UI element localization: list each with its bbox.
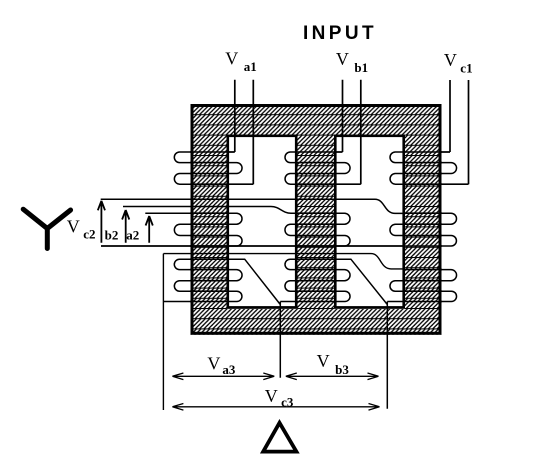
winding b1 right-side loop	[334, 163, 350, 174]
wire c2 to right limb	[101, 199, 405, 213]
winding a1 on left limb: crossing wires	[190, 152, 227, 184]
svg-text:c2: c2	[83, 226, 95, 241]
svg-text:V: V	[67, 216, 80, 236]
svg-text:V: V	[444, 50, 457, 70]
terminal wires Vc1	[442, 80, 469, 184]
svg-text:c1: c1	[460, 61, 472, 76]
terminal wires Vb1	[334, 80, 361, 184]
winding b1 left-side loops	[285, 152, 298, 184]
winding c2 on right limb: crossing wires	[405, 213, 443, 246]
svg-text:b3: b3	[335, 362, 349, 377]
wire Y neutral	[101, 245, 405, 247]
winding c1 left-side loops	[390, 152, 405, 184]
arrow a2	[146, 216, 153, 243]
winding c3 left-side loop	[390, 281, 405, 292]
svg-text:V: V	[207, 354, 220, 374]
arrow c2	[98, 201, 105, 243]
window 1 outline	[228, 136, 296, 308]
dimension arrow Vb3	[286, 373, 379, 380]
svg-text:V: V	[265, 386, 278, 406]
winding b3 right-side loops	[334, 270, 350, 302]
arrow b2	[122, 210, 129, 243]
winding a3 on left limb: crossing wires	[190, 259, 227, 301]
winding c2 left-side loop	[390, 224, 405, 235]
winding c1 on right limb: crossing wires	[405, 152, 443, 184]
winding a2 left-side loop	[174, 224, 190, 235]
dimension arrow Vc3	[172, 404, 379, 411]
wire b2 to middle limb	[123, 207, 298, 214]
winding c3 right-side loops	[442, 270, 457, 302]
winding a1 left-side loops	[174, 152, 190, 184]
svg-text:a2: a2	[126, 228, 139, 243]
winding a3 left-side loops	[174, 259, 190, 291]
winding a2 on left limb: crossing wires	[190, 213, 227, 246]
svg-text:a1: a1	[244, 59, 257, 74]
svg-text:INPUT: INPUT	[303, 23, 377, 44]
wire a2 to left limb	[145, 212, 190, 214]
svg-text:V: V	[336, 49, 349, 69]
svg-text:a3: a3	[222, 362, 236, 377]
winding b2 left-side loop	[285, 224, 298, 235]
winding c3 on right limb: crossing wires	[405, 270, 443, 302]
winding b2 right-side loops	[334, 213, 350, 246]
delta wire a3-c3 (left loop-around)	[163, 254, 405, 410]
winding c1 right-side loop	[442, 163, 457, 174]
winding a3 right-side loops	[227, 270, 243, 302]
window 2 outline	[335, 136, 403, 308]
winding b1 on middle limb: crossing wires	[297, 152, 335, 184]
svg-text:V: V	[225, 49, 238, 69]
svg-text:b2: b2	[105, 228, 119, 243]
svg-text:c3: c3	[281, 395, 294, 410]
winding a2 right-side loops	[227, 213, 243, 246]
winding b3 on middle limb: crossing wires	[297, 259, 335, 301]
dimension arrow Va3	[172, 373, 274, 380]
delta link a3 diagonal in window 1	[227, 259, 298, 378]
winding a1 right-side loop	[227, 163, 243, 174]
winding b2 on middle limb: crossing wires	[297, 213, 335, 246]
delta link b3 diagonal in window 2	[334, 259, 405, 409]
terminal wires Va1	[227, 80, 254, 184]
wye symbol	[23, 209, 70, 248]
core outer outline	[192, 106, 440, 334]
delta symbol	[263, 423, 296, 452]
winding c2 right-side loops	[442, 213, 457, 246]
svg-text:V: V	[317, 351, 330, 371]
svg-text:b1: b1	[354, 60, 368, 75]
winding b3 left-side loops	[285, 259, 298, 291]
three-limb transformer core (hatched)	[191, 104, 442, 335]
